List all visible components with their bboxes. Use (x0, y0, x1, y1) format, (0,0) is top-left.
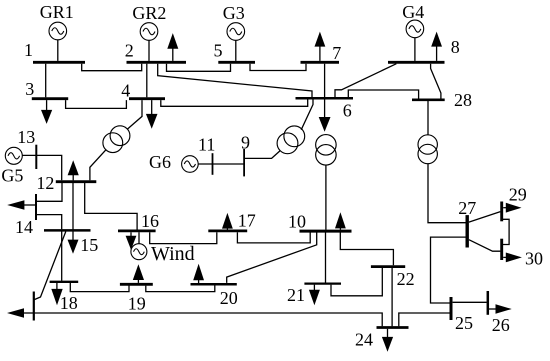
svg-text:2: 2 (125, 40, 134, 60)
svg-text:29: 29 (509, 185, 527, 205)
svg-text:20: 20 (220, 288, 238, 308)
svg-text:21: 21 (287, 285, 305, 305)
svg-text:G6: G6 (149, 152, 171, 172)
svg-text:G5: G5 (1, 165, 23, 185)
svg-text:16: 16 (141, 211, 159, 231)
svg-text:24: 24 (355, 329, 373, 349)
svg-text:30: 30 (525, 249, 543, 269)
svg-text:8: 8 (451, 37, 460, 57)
svg-text:13: 13 (17, 127, 35, 147)
svg-text:26: 26 (492, 315, 510, 335)
svg-text:10: 10 (288, 211, 306, 231)
svg-text:7: 7 (332, 43, 341, 63)
svg-text:15: 15 (80, 235, 98, 255)
svg-text:GR2: GR2 (132, 3, 166, 23)
svg-text:5: 5 (214, 40, 223, 60)
svg-text:4: 4 (121, 80, 130, 100)
svg-text:19: 19 (128, 293, 146, 313)
svg-text:G4: G4 (402, 2, 424, 22)
svg-text:22: 22 (397, 269, 415, 289)
svg-text:G3: G3 (223, 3, 245, 23)
svg-text:27: 27 (458, 198, 476, 218)
svg-text:17: 17 (238, 210, 256, 230)
svg-text:3: 3 (25, 79, 34, 99)
svg-text:9: 9 (241, 132, 250, 152)
svg-text:GR1: GR1 (40, 2, 74, 22)
svg-text:1: 1 (24, 40, 33, 60)
svg-text:6: 6 (343, 100, 352, 120)
svg-text:28: 28 (454, 90, 472, 110)
svg-text:12: 12 (36, 173, 54, 193)
svg-text:14: 14 (15, 217, 33, 237)
svg-text:11: 11 (198, 134, 215, 154)
svg-text:25: 25 (455, 313, 473, 333)
svg-text:18: 18 (60, 293, 78, 313)
svg-text:Wind: Wind (151, 243, 195, 265)
